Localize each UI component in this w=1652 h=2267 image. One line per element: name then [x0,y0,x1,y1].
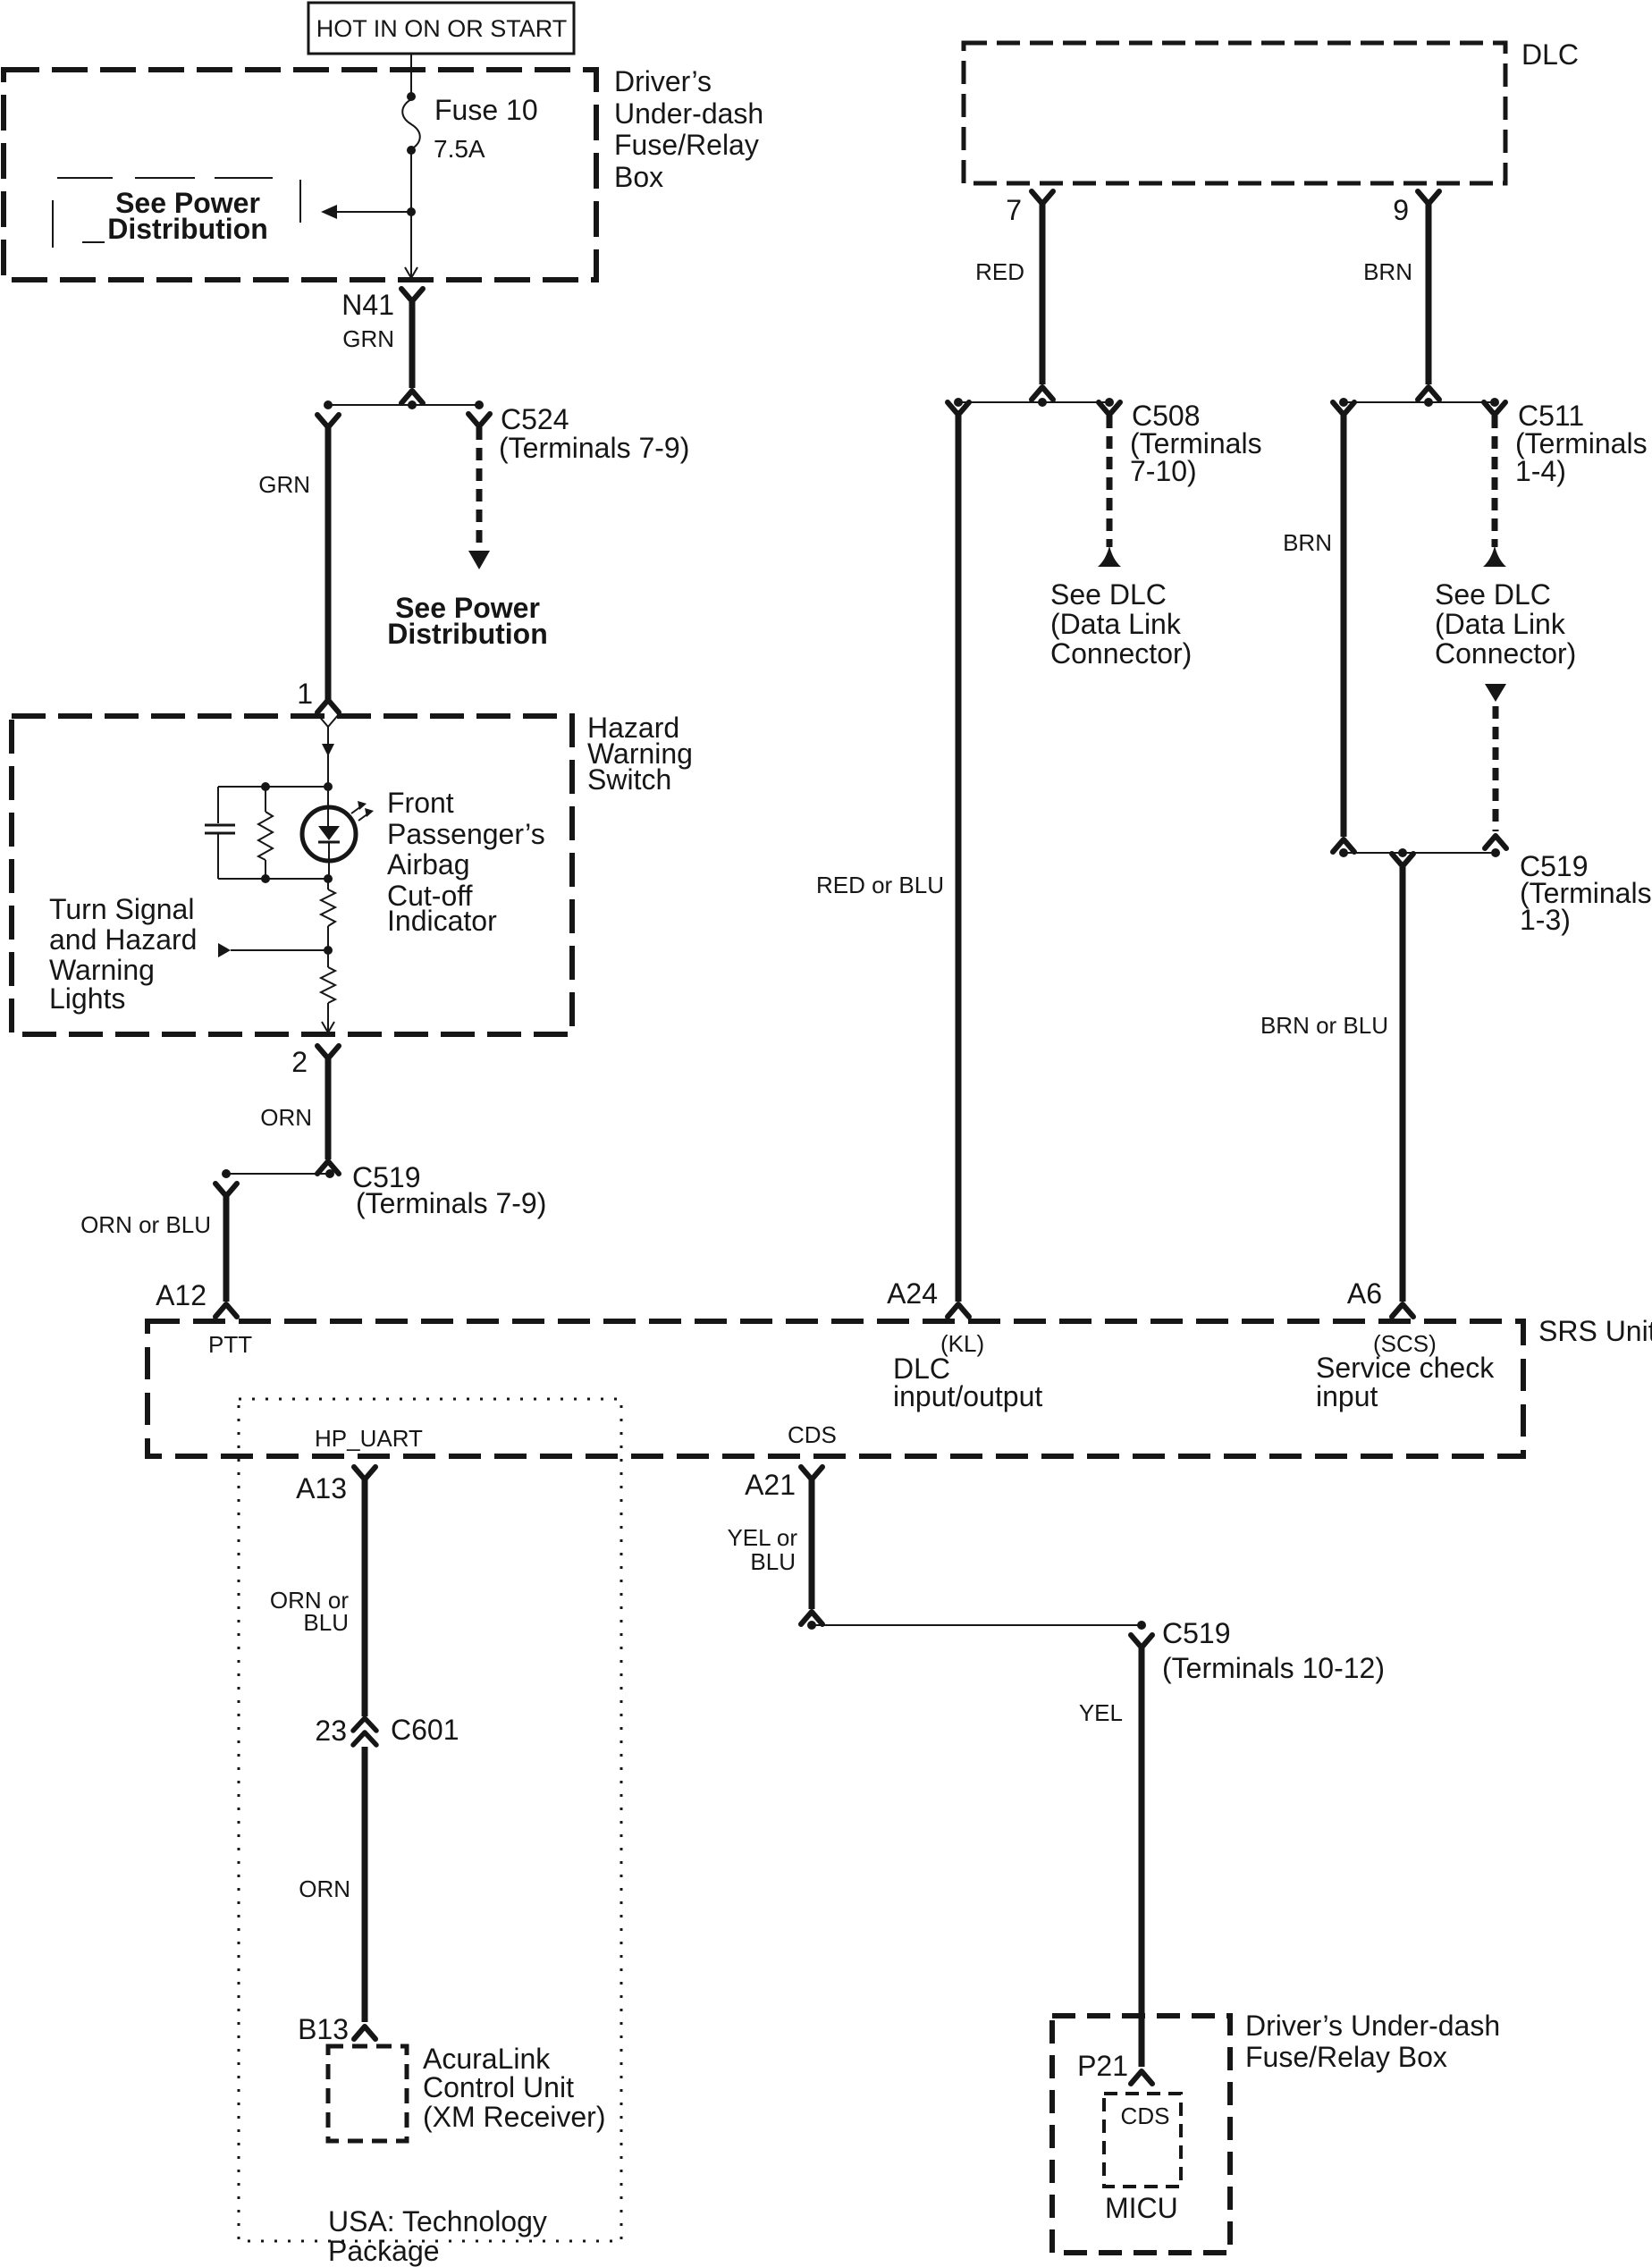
svg-text:BLU: BLU [750,1548,796,1575]
svg-text:C601: C601 [391,1714,459,1746]
node: tap to turn signal lights [324,946,333,955]
diode arrow on wire [322,744,334,756]
svg-text:Distribution: Distribution [107,213,268,245]
svg-text:BRN: BRN [1363,258,1412,285]
svg-text:Fuse 10: Fuse 10 [434,94,538,126]
hazard warning switch box [12,712,693,1034]
svg-text:(Data Link: (Data Link [1435,608,1566,640]
svg-text:Driver’s Under-dash: Driver’s Under-dash [1245,2010,1500,2042]
svg-text:YEL or: YEL or [727,1524,797,1551]
svg-text:23: 23 [315,1715,347,1747]
svg-text:See DLC: See DLC [1050,578,1167,611]
svg-text:Switch: Switch [587,763,671,796]
svg-text:(Terminals 7-9): (Terminals 7-9) [356,1187,546,1219]
acuralink control unit (XM receiver) box [328,2043,605,2141]
svg-text:C524: C524 [501,403,569,435]
wire RED or BLU to A24 [816,402,969,1317]
svg-text:N41: N41 [341,289,394,321]
svg-text:7-10): 7-10) [1130,455,1197,487]
connector C601 (pin 23) [315,1714,459,1747]
wire BRN down to C519 junction [1283,402,1354,852]
svg-text:MICU: MICU [1105,2192,1178,2224]
svg-text:(Terminals 7-9): (Terminals 7-9) [499,432,689,464]
node: junction below pin 9 [1339,398,1499,407]
svg-text:Under-dash: Under-dash [614,97,763,130]
svg-text:Turn Signal: Turn Signal [49,893,194,925]
svg-text:and Hazard: and Hazard [49,923,197,956]
svg-text:HP_UART: HP_UART [315,1425,423,1452]
svg-text:DLC: DLC [1521,38,1579,71]
exit chevron [322,1022,334,1032]
svg-text:SRS Unit: SRS Unit [1538,1315,1652,1347]
svg-text:input/output: input/output [893,1380,1042,1412]
see power distribution ref (left arrow) [53,178,416,248]
connector C511 branch (dashed) [1435,400,1648,670]
svg-text:1: 1 [297,678,313,710]
svg-text:Fuse/Relay: Fuse/Relay [614,129,759,161]
svg-text:A13: A13 [296,1472,347,1504]
svg-text:Airbag: Airbag [387,848,470,881]
svg-text:YEL: YEL [1079,1699,1123,1726]
svg-text:USA: Technology: USA: Technology [328,2205,547,2238]
svg-text:ORN: ORN [299,1875,350,1902]
svg-text:A12: A12 [156,1279,206,1311]
dashed wire from DLC ref down [1485,684,1506,848]
wire fuse to box bottom [410,152,412,278]
svg-text:Box: Box [614,161,663,193]
svg-text:AcuraLink: AcuraLink [423,2043,551,2075]
svg-text:CDS: CDS [788,1421,837,1448]
svg-text:1-4): 1-4) [1515,455,1566,487]
svg-text:Connector): Connector) [1435,637,1576,670]
svg-text:See DLC: See DLC [1435,578,1551,611]
svg-text:Driver’s: Driver’s [614,65,712,97]
svg-text:Indicator: Indicator [387,905,497,937]
fuse 10 (7.5A) [402,92,537,163]
capacitor C [217,787,219,823]
wire ORN (C601 to B13) [298,1747,375,2045]
wire YEL to P21 [1077,1635,1152,2084]
wire HOT to fuse [410,54,412,98]
connector C524 branch (dashed, see power distribution) [387,403,689,650]
svg-text:CDS: CDS [1121,2103,1170,2129]
svg-text:BLU: BLU [303,1609,349,1636]
svg-text:RED or BLU: RED or BLU [816,872,944,898]
svg-text:7.5A: 7.5A [434,135,485,163]
svg-text:9: 9 [1393,194,1409,226]
wire RED (DLC pin 7) [975,191,1053,400]
SRS unit box [147,1315,1652,1456]
svg-text:P21: P21 [1077,2050,1128,2082]
wire BRN (DLC pin 9) [1363,191,1439,400]
svg-text:A6: A6 [1347,1277,1382,1310]
node bottom rail [218,878,328,880]
svg-text:Front: Front [387,787,454,819]
svg-text:BRN: BRN [1283,529,1332,556]
svg-text:Service check: Service check [1316,1352,1495,1384]
wire BRN or BLU to A6 [1260,854,1413,1317]
connector C519 (terminals 1-3) [1339,848,1652,936]
driver's under-dash fuse/relay box (bottom) [1052,2010,1500,2253]
connector C508 branch (dashed) [1050,400,1262,670]
svg-text:2: 2 [291,1046,308,1078]
svg-text:Fuse/Relay Box: Fuse/Relay Box [1245,2041,1447,2073]
svg-text:RED: RED [975,258,1024,285]
svg-text:A21: A21 [745,1469,796,1501]
LED front passenger's airbag cut-off indicator [327,787,329,826]
connector N41 [341,289,423,403]
svg-text:GRN: GRN [258,471,310,498]
resistor R (parallel) [265,787,266,812]
resistor R2 [327,879,329,889]
svg-text:Distribution: Distribution [387,618,548,650]
entry chevron [317,714,339,727]
svg-text:Control Unit: Control Unit [423,2071,574,2103]
svg-text:ORN or BLU: ORN or BLU [80,1211,211,1238]
svg-text:PTT: PTT [208,1331,252,1358]
svg-text:7: 7 [1006,194,1022,226]
resistor R3 [327,950,329,967]
node HOT IN ON OR START [308,3,574,54]
svg-text:Connector): Connector) [1050,637,1192,670]
svg-text:(Data Link: (Data Link [1050,608,1182,640]
svg-text:Passenger’s: Passenger’s [387,818,545,850]
MICU block with CDS [1104,2094,1181,2224]
wire ORN or BLU (A13 to C601) [270,1467,375,1716]
wire ORN (pin 2) [260,1046,339,1174]
hazard switch internals [49,714,545,1032]
svg-text:Lights: Lights [49,982,125,1015]
svg-text:BRN or BLU: BRN or BLU [1260,1012,1388,1039]
svg-text:Warning: Warning [49,954,155,986]
connector C519 (terminals 7-9) [222,1161,546,1219]
svg-text:C519: C519 [1162,1617,1231,1649]
svg-text:HOT IN ON OR START: HOT IN ON OR START [316,15,568,42]
svg-text:GRN: GRN [342,325,394,352]
svg-text:(Terminals 10-12): (Terminals 10-12) [1162,1652,1385,1684]
node: junction below N41 [324,400,484,409]
driver's under-dash fuse/relay box (top) [4,65,763,280]
svg-text:1-3): 1-3) [1520,904,1571,936]
svg-text:(XM Receiver): (XM Receiver) [423,2101,605,2133]
svg-text:B13: B13 [298,2013,349,2045]
svg-text:input: input [1316,1380,1378,1412]
node top rail [218,786,328,788]
wire GRN to hazard switch [258,415,339,712]
connector C519 (terminals 10-12) [807,1617,1385,1684]
DLC box [964,38,1579,183]
wire GRN (N41) [409,300,416,388]
LED rays [351,806,361,813]
wire ORN or BLU to A12 [80,1184,237,1317]
svg-text:A24: A24 [887,1277,938,1310]
wire YEL or BLU (A21) [727,1467,822,1624]
svg-text:Package: Package [328,2235,440,2267]
exit chevron into box edge [405,267,417,278]
svg-text:ORN: ORN [260,1104,312,1131]
node: junction below pin 7 [954,398,1114,407]
USA technology package box (dotted) [239,1399,621,2267]
wire down [327,727,329,787]
